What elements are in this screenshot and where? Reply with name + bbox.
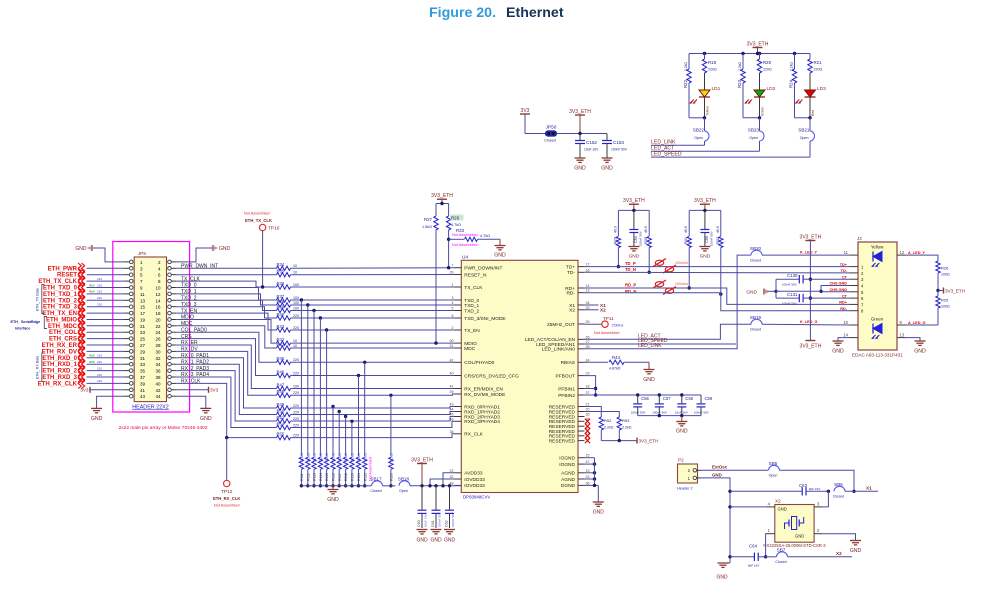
svg-text:R55: R55 xyxy=(277,431,285,436)
svg-text:R33: R33 xyxy=(456,228,465,233)
net label ETH_PWR xyxy=(48,263,125,273)
svg-text:JP5: JP5 xyxy=(138,251,146,256)
ground header pin 43 xyxy=(91,396,125,422)
wire RX_ER net xyxy=(176,345,276,389)
svg-text:TD+: TD+ xyxy=(566,264,575,270)
net label ETH_RX_CLK xyxy=(38,378,125,388)
solder bridge SB19 Closed xyxy=(750,315,850,331)
svg-text:36: 36 xyxy=(586,481,590,485)
net label ExtOsc wire xyxy=(701,465,768,471)
svg-text:27: 27 xyxy=(140,343,146,348)
svg-text:Not Assembled: Not Assembled xyxy=(244,212,270,216)
svg-text:GND: GND xyxy=(416,538,428,544)
svg-text:TX_EN: TX_EN xyxy=(464,328,480,334)
svg-text:K_LED_G: K_LED_G xyxy=(800,320,818,324)
svg-text:220: 220 xyxy=(97,360,102,364)
net label RX_ER xyxy=(181,340,198,346)
svg-text:220: 220 xyxy=(293,358,299,362)
svg-text:A_LED_Y: A_LED_Y xyxy=(908,251,926,255)
IC U4 DP83848CVV outline xyxy=(461,255,578,500)
net label TXD_0 xyxy=(181,283,197,289)
svg-text:Closed: Closed xyxy=(833,495,844,499)
resistor R20 220 xyxy=(757,54,772,74)
svg-text:C64: C64 xyxy=(749,544,758,549)
svg-text:TD-: TD- xyxy=(841,269,848,273)
svg-text:ETH_RX_CLK: ETH_RX_CLK xyxy=(38,381,78,387)
wire R38 to U4 xyxy=(291,304,455,306)
svg-text:ETH_RXD_2: ETH_RXD_2 xyxy=(42,369,77,375)
svg-text:29: 29 xyxy=(450,271,454,275)
svg-text:49.9: 49.9 xyxy=(613,226,617,233)
net label RX_0_PAD1 xyxy=(181,353,209,359)
svg-text:2.2kΩ: 2.2kΩ xyxy=(622,426,632,430)
capacitor C59 100nF 50V xyxy=(694,395,713,416)
IC U4 right pins xyxy=(525,263,590,490)
svg-text:2.2kΩ: 2.2kΩ xyxy=(789,62,793,71)
svg-text:HEADER 22X2: HEADER 22X2 xyxy=(132,404,169,410)
resistor R46 220 xyxy=(277,369,300,377)
svg-text:44: 44 xyxy=(155,394,161,399)
resistor R35 10 xyxy=(277,269,298,277)
svg-text:LD3: LD3 xyxy=(817,86,826,92)
svg-text:R26: R26 xyxy=(941,266,949,271)
wire R48 to U4 xyxy=(291,394,455,395)
wire IOVDD33 to bus xyxy=(428,479,454,487)
wire MDC net xyxy=(176,326,276,348)
svg-text:14: 14 xyxy=(155,298,161,303)
svg-text:IOVDD33: IOVDD33 xyxy=(464,477,485,483)
resistor R31 49.9 xyxy=(684,210,691,289)
svg-text:Not Assembled: Not Assembled xyxy=(452,243,478,247)
ground U4 digital xyxy=(593,502,605,516)
svg-text:32: 32 xyxy=(155,356,161,361)
wire R40 to U4 xyxy=(291,317,455,319)
jack J3 pins xyxy=(843,250,905,338)
svg-text:SB7: SB7 xyxy=(777,548,786,553)
net label TXD_1 xyxy=(181,289,197,295)
svg-text:100nF 50V: 100nF 50V xyxy=(631,411,646,415)
svg-text:Open: Open xyxy=(749,136,758,140)
svg-text:37: 37 xyxy=(586,391,590,395)
LED LD2 Green xyxy=(745,73,776,118)
no-connect marks on RESERVED pins xyxy=(585,419,590,444)
svg-text:Not Assembled: Not Assembled xyxy=(594,331,620,335)
resistor R29 49.9 xyxy=(613,210,620,268)
wire R47 to U4 xyxy=(291,388,455,390)
svg-text:33: 33 xyxy=(140,362,146,367)
power 3V3_ETH center tap bottom xyxy=(800,341,822,350)
svg-text:SB22: SB22 xyxy=(693,128,705,133)
power 3V3 header pin 42 xyxy=(176,387,218,393)
svg-text:ETH_TXD_1: ETH_TXD_1 xyxy=(43,292,78,298)
net label ETH_CRS xyxy=(49,333,125,343)
svg-text:42: 42 xyxy=(155,388,161,393)
svg-text:43: 43 xyxy=(140,394,146,399)
svg-text:GND: GND xyxy=(850,548,862,554)
svg-text:40: 40 xyxy=(155,381,161,386)
svg-text:TP12: TP12 xyxy=(221,489,233,495)
svg-text:TD-: TD- xyxy=(567,270,575,276)
svg-text:14: 14 xyxy=(586,284,590,288)
IC U4 left pins xyxy=(450,264,519,490)
net label X1 at U4 xyxy=(585,303,607,308)
header JP5 pins xyxy=(125,260,177,399)
svg-text:Closed: Closed xyxy=(750,258,761,262)
wire LD1 cathode junction xyxy=(689,116,706,119)
svg-text:R64: R64 xyxy=(89,290,95,294)
resistor R28 4.7k PWR_DOWN pullup xyxy=(446,204,463,270)
svg-text:R118: R118 xyxy=(344,473,348,481)
svg-text:R39: R39 xyxy=(277,304,285,309)
net label ETH_RXD_1 xyxy=(42,359,124,369)
wire crystal pin4 to GND net xyxy=(730,506,766,508)
wire CT pin3 xyxy=(810,278,849,280)
svg-text:R28: R28 xyxy=(451,216,460,221)
solder bridge SB17 Closed xyxy=(367,477,396,493)
svg-text:ETH_RXD_0: ETH_RXD_0 xyxy=(42,356,77,362)
wire PFBOUT to PFBIN xyxy=(585,376,702,397)
svg-text:AGND: AGND xyxy=(561,471,575,477)
svg-text:GND: GND xyxy=(430,538,442,544)
svg-text:SB20: SB20 xyxy=(750,246,762,251)
svg-text:R122: R122 xyxy=(363,473,367,481)
svg-text:GND: GND xyxy=(832,349,844,355)
svg-text:28: 28 xyxy=(586,345,590,349)
svg-text:41: 41 xyxy=(450,385,454,389)
connector J3 EDAC A63-113-331P431 outline xyxy=(852,236,903,358)
svg-text:R35: R35 xyxy=(277,269,285,274)
svg-text:10: 10 xyxy=(293,264,297,268)
LED LD3 Red xyxy=(795,73,826,118)
net label RESET xyxy=(57,270,125,280)
power 3V3_ETH C54 network xyxy=(618,198,649,212)
wire RX_DV net xyxy=(176,351,276,395)
net label jack CT pin3 xyxy=(842,275,848,279)
svg-text:220: 220 xyxy=(97,366,102,370)
wire 3V3 to JP50 xyxy=(525,133,546,135)
svg-text:100nF 50V: 100nF 50V xyxy=(639,231,643,246)
svg-text:X2: X2 xyxy=(836,551,842,556)
svg-text:13: 13 xyxy=(586,289,590,293)
svg-text:ETH_RX_ER: ETH_RX_ER xyxy=(42,343,78,349)
svg-text:220Ω: 220Ω xyxy=(708,68,717,72)
svg-text:R51: R51 xyxy=(277,415,285,420)
svg-text:R47: R47 xyxy=(277,382,285,387)
solder bridge SB6 Closed xyxy=(827,482,878,498)
svg-text:24: 24 xyxy=(155,330,161,335)
resistor R37 100 xyxy=(277,294,300,302)
svg-text:4: 4 xyxy=(452,301,454,305)
ground C61 xyxy=(430,530,442,544)
svg-text:C54: C54 xyxy=(634,236,638,243)
wire RD+ to jack pin7 xyxy=(585,288,850,304)
power 3V3_ETH decoupling xyxy=(411,457,433,487)
svg-text:100: 100 xyxy=(293,296,299,300)
svg-text:AGND: AGND xyxy=(561,477,575,483)
bracket ETH_RX Data group xyxy=(36,353,45,382)
net label TXD_2 xyxy=(181,296,197,302)
LED LD1 Yellow xyxy=(690,73,721,118)
svg-text:Not Assembled: Not Assembled xyxy=(452,233,478,237)
wire R54 to U4 xyxy=(291,421,455,427)
net label LED_LINK xyxy=(651,140,705,146)
svg-text:49.9: 49.9 xyxy=(716,226,720,233)
svg-text:100nF 50V: 100nF 50V xyxy=(710,231,714,246)
svg-text:GND: GND xyxy=(795,534,804,539)
resistor R27 1.5k MDIO pullup xyxy=(422,204,438,345)
resistor R26 100 xyxy=(936,261,950,291)
svg-text:19: 19 xyxy=(140,318,146,323)
net label LED_ACT xyxy=(651,145,760,151)
net label jack TD+ pin1 xyxy=(840,263,848,267)
wire RX_3_PAD4 net xyxy=(176,377,276,428)
svg-text:29: 29 xyxy=(140,349,146,354)
svg-text:J3: J3 xyxy=(857,236,862,241)
svg-text:220: 220 xyxy=(293,326,299,330)
svg-text:R65: R65 xyxy=(89,354,95,358)
wire R42 to U4 xyxy=(291,342,455,344)
svg-text:R113: R113 xyxy=(313,473,317,481)
wire TXD_0 net xyxy=(176,288,276,301)
svg-text:21: 21 xyxy=(586,403,590,407)
ground C54 xyxy=(628,247,639,260)
svg-text:GND: GND xyxy=(643,377,655,383)
svg-text:20: 20 xyxy=(155,318,161,323)
wire COL_PAD0 net xyxy=(176,332,276,362)
svg-text:ETH_COL: ETH_COL xyxy=(49,330,77,336)
resistor R23 2.2k xyxy=(737,54,745,118)
net label TD_P xyxy=(625,261,636,266)
svg-text:TD_N: TD_N xyxy=(625,267,636,272)
svg-text:TX_CLK: TX_CLK xyxy=(464,285,483,291)
net label TX_CLK xyxy=(181,276,201,282)
resistor R51 220 xyxy=(277,415,300,423)
svg-text:26: 26 xyxy=(155,337,161,342)
svg-text:10: 10 xyxy=(293,344,297,348)
svg-text:GND: GND xyxy=(593,510,605,516)
label ETH_ SerialBdge Interface xyxy=(11,317,48,331)
svg-text:3V3_ETH: 3V3_ETH xyxy=(800,234,822,240)
svg-text:R63: R63 xyxy=(89,283,95,287)
svg-text:R43: R43 xyxy=(277,324,285,329)
svg-text:16: 16 xyxy=(586,268,590,272)
resistor R113 2.2k pulldown xyxy=(312,309,317,488)
svg-text:TXD_3/SNI_MODE: TXD_3/SNI_MODE xyxy=(464,316,505,322)
svg-text:34: 34 xyxy=(586,301,590,305)
power 3V3 xyxy=(520,108,530,134)
wire RX_0_PAD1 net xyxy=(176,358,276,408)
ground C130 C131 xyxy=(746,279,777,298)
svg-text:C130: C130 xyxy=(787,273,798,278)
net label ETH_TX_EN xyxy=(42,308,124,318)
svg-text:NX3225SA-25.000M-STD-CSR-3: NX3225SA-25.000M-STD-CSR-3 xyxy=(763,543,826,548)
svg-text:24: 24 xyxy=(586,358,590,362)
wire R55 to U4 xyxy=(291,434,455,438)
net label ETH_MDIO xyxy=(46,314,125,324)
net label RX_3_PAD4 xyxy=(181,372,209,378)
svg-text:220: 220 xyxy=(293,417,299,421)
svg-text:Green: Green xyxy=(761,106,765,116)
resistor R53 2.2k xyxy=(585,412,632,441)
svg-text:10: 10 xyxy=(155,286,161,291)
net label CRS xyxy=(181,334,192,340)
net label RD_P xyxy=(625,283,636,288)
svg-text:2x22 male pin array or Molex 7: 2x22 male pin array or Molex 70246-4402 xyxy=(119,425,208,431)
svg-text:7: 7 xyxy=(452,264,454,268)
svg-text:R115: R115 xyxy=(325,473,329,481)
svg-text:3V3_ETH: 3V3_ETH xyxy=(569,109,591,115)
svg-text:Red: Red xyxy=(811,110,815,116)
resistor R41 10 xyxy=(277,342,298,350)
net label ETH_TXD_0 xyxy=(43,282,125,292)
net label RX_CLK xyxy=(181,379,201,385)
svg-text:220: 220 xyxy=(97,277,102,281)
svg-text:100Ω: 100Ω xyxy=(941,305,950,309)
ferrite RD 100ohm xyxy=(653,280,688,295)
connector JP5 HEADER 22X2 outline xyxy=(113,242,208,432)
ground header pin 44 xyxy=(176,396,212,422)
svg-text:220: 220 xyxy=(293,314,299,318)
resistor R19 220 xyxy=(702,54,717,74)
svg-text:27: 27 xyxy=(586,340,590,344)
svg-text:100ohm: 100ohm xyxy=(675,282,688,286)
solder bridge SB20 Closed xyxy=(750,246,850,262)
svg-text:31: 31 xyxy=(450,344,454,348)
svg-text:TD+: TD+ xyxy=(840,263,848,267)
svg-text:41: 41 xyxy=(140,388,146,393)
svg-text:3V3_ETH: 3V3_ETH xyxy=(800,344,822,350)
svg-text:ETH_TXD_3: ETH_TXD_3 xyxy=(43,305,78,311)
svg-text:R50: R50 xyxy=(277,408,285,413)
test point TP12 ETH_RX_CLK Not Assembled xyxy=(213,436,240,508)
svg-text:ETH_TX_EN: ETH_TX_EN xyxy=(42,311,77,317)
svg-text:R44: R44 xyxy=(612,355,621,360)
svg-text:R66: R66 xyxy=(89,360,95,364)
svg-text:4.7kΩ: 4.7kΩ xyxy=(451,223,461,227)
svg-text:Open: Open xyxy=(399,489,408,493)
svg-text:220: 220 xyxy=(293,391,299,395)
svg-text:ETH_RX_CLK: ETH_RX_CLK xyxy=(213,496,240,501)
wire R46 to U4 xyxy=(291,375,455,377)
svg-text:RESET: RESET xyxy=(57,273,77,279)
svg-text:49.9: 49.9 xyxy=(644,226,648,233)
svg-text:43: 43 xyxy=(450,403,454,407)
svg-text:Open: Open xyxy=(800,136,809,140)
resistor R117 2.2k pulldown xyxy=(337,410,342,488)
resistor R118 2.2k pulldown xyxy=(343,415,348,488)
svg-text:Closed: Closed xyxy=(370,489,381,493)
ground below C152 xyxy=(574,158,586,172)
net label jack CT pin6 xyxy=(842,294,848,298)
resistor R45 220 xyxy=(277,356,300,364)
wire cap bank bottom rail xyxy=(638,414,701,417)
net label ETH_RXD_3 xyxy=(42,372,124,382)
net label GND wire P2 pin1 xyxy=(701,472,732,563)
net label LED_ACT wire to SB19 xyxy=(585,324,752,339)
svg-text:35: 35 xyxy=(140,369,146,374)
svg-text:TP11: TP11 xyxy=(603,316,614,321)
svg-text:220Ω: 220Ω xyxy=(763,68,772,72)
svg-text:10: 10 xyxy=(293,339,297,343)
svg-text:C60: C60 xyxy=(417,520,421,527)
power 3V3_ETH R52 R53 xyxy=(601,438,658,444)
capacitor C58 10uF 16V xyxy=(675,395,694,416)
svg-text:Figure 20.: Figure 20. xyxy=(429,5,496,21)
svg-text:GND: GND xyxy=(200,416,212,422)
wire crystal pin3 to X1 xyxy=(822,491,828,507)
wire R35 to U4 xyxy=(291,274,455,276)
svg-text:ETH_MDC: ETH_MDC xyxy=(48,324,78,330)
svg-text:EDAC A63-113-331P431: EDAC A63-113-331P431 xyxy=(852,353,903,358)
svg-text:Interface: Interface xyxy=(15,327,30,331)
svg-text:100nF 50V: 100nF 50V xyxy=(437,512,441,527)
svg-text:ETH_CRS: ETH_CRS xyxy=(49,337,77,343)
capacitor C62 100nF 50V xyxy=(445,484,455,528)
wire R34 to U4 xyxy=(291,267,455,270)
wire LD2 cathode junction xyxy=(743,116,761,119)
svg-text:ETH_TXD_0: ETH_TXD_0 xyxy=(43,286,78,292)
svg-text:220: 220 xyxy=(293,371,299,375)
svg-text:ETH_RXD_3: ETH_RXD_3 xyxy=(42,375,77,381)
resistor R36 100 xyxy=(277,281,300,289)
svg-text:R38: R38 xyxy=(277,299,285,304)
svg-text:R25: R25 xyxy=(941,298,949,303)
svg-text:RD_P: RD_P xyxy=(625,283,636,288)
svg-text:22: 22 xyxy=(450,469,454,473)
svg-text:16: 16 xyxy=(155,305,161,310)
svg-text:19: 19 xyxy=(586,469,590,473)
solder bridge SB18 Open xyxy=(398,477,461,493)
svg-text:TXD_1: TXD_1 xyxy=(464,303,479,309)
svg-text:P2: P2 xyxy=(678,458,684,463)
ground C62 xyxy=(444,530,456,544)
svg-text:12: 12 xyxy=(155,292,161,297)
resistor R49 220 xyxy=(277,402,300,410)
wire CRS net xyxy=(176,339,276,376)
svg-text:10uF 16V: 10uF 16V xyxy=(423,514,427,527)
wire PWR_DWN_INT net xyxy=(176,267,276,269)
net label LED_SPEED wire xyxy=(585,338,737,344)
svg-text:RBIAS: RBIAS xyxy=(561,360,575,366)
net label ETH_MDC xyxy=(48,321,125,331)
svg-text:PFBIN2: PFBIN2 xyxy=(558,393,575,399)
svg-text:220: 220 xyxy=(293,433,299,437)
wire LD3 cathode junction xyxy=(795,116,812,119)
svg-text:100: 100 xyxy=(293,283,299,287)
svg-text:20: 20 xyxy=(586,408,590,412)
net label ETH_TX_CLK xyxy=(38,276,124,286)
resistor R122 2.2k pulldown xyxy=(363,361,368,488)
wire RX_2_PAD3 net xyxy=(176,371,276,421)
svg-text:39: 39 xyxy=(450,390,454,394)
svg-text:Open: Open xyxy=(769,474,778,478)
wire U4 ground pins xyxy=(585,458,599,502)
capacitor C54 100nF/50V xyxy=(629,210,642,246)
svg-text:22: 22 xyxy=(155,324,161,329)
svg-text:TD_P: TD_P xyxy=(625,261,636,266)
resistor R24 2.2k xyxy=(788,54,796,118)
svg-text:39: 39 xyxy=(140,381,146,386)
resistor R54 220 xyxy=(277,421,300,429)
svg-text:220: 220 xyxy=(97,303,102,307)
svg-text:47: 47 xyxy=(586,460,590,464)
net label PWR_DWN_INT xyxy=(181,264,218,270)
svg-text:28: 28 xyxy=(155,343,161,348)
svg-text:100nF 50V: 100nF 50V xyxy=(694,411,709,415)
svg-text:R19: R19 xyxy=(708,60,717,65)
svg-text:220: 220 xyxy=(293,423,299,427)
svg-text:ETH_PWR: ETH_PWR xyxy=(48,266,78,272)
